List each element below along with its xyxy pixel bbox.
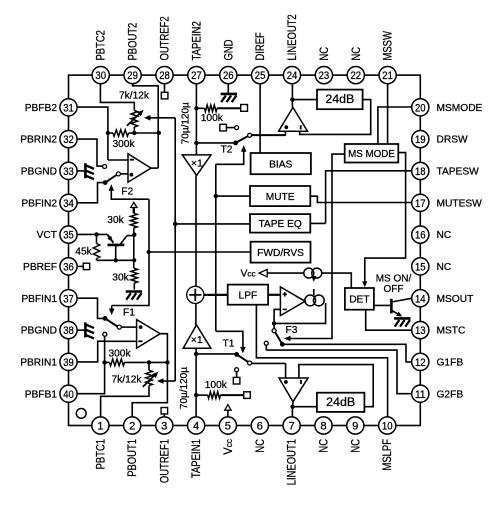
svg-text:MSSW: MSSW <box>381 30 395 60</box>
svg-text:NC: NC <box>317 47 331 61</box>
svg-text:PBRIN1: PBRIN1 <box>20 358 57 369</box>
wire pin20 to MS MODE <box>378 107 412 144</box>
current mirror lower <box>305 295 316 306</box>
block FWD/RVS <box>251 242 311 263</box>
wire LPF to MSLPF pin10 <box>256 305 387 417</box>
wire to 24dB ch1 <box>293 406 317 408</box>
pin 5 <box>219 417 236 434</box>
wire pot bottom to 300k node <box>133 127 135 133</box>
wire pot to pin1 <box>101 386 149 418</box>
svg-text:TAPE EQ: TAPE EQ <box>258 219 301 230</box>
bus MS MODE right to DET <box>365 153 406 282</box>
wire amp output to pin7 <box>291 402 294 417</box>
wire pin37 to F1 pivot <box>77 298 105 318</box>
block MUTE <box>250 186 310 206</box>
svg-text:29: 29 <box>127 70 138 82</box>
wire F2 minus input <box>108 133 128 160</box>
svg-text:MSMODE: MSMODE <box>437 103 483 114</box>
svg-text:22: 22 <box>351 70 362 82</box>
svg-text:NC: NC <box>253 439 267 453</box>
pin 2 <box>124 417 141 434</box>
op-amp F1 <box>137 320 161 349</box>
svg-text:70µ/120µ: 70µ/120µ <box>179 367 190 409</box>
svg-text:TAPEIN1: TAPEIN1 <box>189 439 203 478</box>
wire pin3 stub <box>163 414 165 417</box>
switch T1 lever <box>234 352 239 357</box>
pin 37 <box>60 290 77 307</box>
svg-text:30: 30 <box>95 70 106 82</box>
pin 13 <box>412 322 429 339</box>
svg-text:21: 21 <box>382 70 393 82</box>
block TAPE EQ <box>250 214 310 233</box>
variable resistor 7k/12k (ch1) body <box>148 362 150 370</box>
svg-text:MUTE: MUTE <box>266 192 295 203</box>
pin 26 <box>220 67 237 84</box>
wire F1 plus input <box>121 326 136 328</box>
svg-text:MSTC: MSTC <box>437 326 466 337</box>
pin 1 <box>92 417 109 434</box>
svg-text:Vcc: Vcc <box>240 269 255 280</box>
svg-text:PBOUT1: PBOUT1 <box>125 439 139 477</box>
wire DET to pin13 <box>366 310 412 331</box>
svg-text:OUTREF2: OUTREF2 <box>158 16 172 60</box>
svg-text:OUTREF1: OUTREF1 <box>157 439 171 483</box>
wire MUTESW to MUTE <box>310 196 411 202</box>
svg-text:7: 7 <box>288 421 294 433</box>
resistor 300k (ch1) <box>110 359 125 366</box>
wire T2 contact to lineout amp <box>252 134 286 136</box>
wire F3 pivot to pin12 <box>282 344 411 362</box>
op-amp LINEOUT2 <box>279 107 308 131</box>
pin 18 <box>412 162 429 179</box>
wire 24dB ch2 feedback <box>300 100 371 135</box>
svg-text:37: 37 <box>63 293 74 305</box>
block MS MODE <box>345 144 399 163</box>
pin 39 <box>60 353 77 370</box>
svg-text:×1: ×1 <box>191 334 203 346</box>
svg-text:PBTC1: PBTC1 <box>93 439 107 469</box>
svg-text:NC: NC <box>437 230 452 241</box>
svg-text:BIAS: BIAS <box>269 159 292 170</box>
block LPF <box>228 285 268 305</box>
svg-text:5: 5 <box>225 421 231 433</box>
pin 9 <box>347 417 364 434</box>
pin 21 <box>379 67 396 84</box>
svg-text:NC: NC <box>317 439 331 453</box>
wire F3 minus feedback <box>274 309 280 323</box>
wire feedback from mirror <box>274 303 326 323</box>
svg-text:19: 19 <box>415 134 426 146</box>
svg-text:40: 40 <box>63 389 74 401</box>
svg-text:G1FB: G1FB <box>437 358 464 369</box>
svg-text:PBFIN1: PBFIN1 <box>21 294 57 305</box>
terminal square 100k ch1 <box>244 392 251 399</box>
wire mirror to DET <box>322 273 352 288</box>
transistor Q1 (VCT buffer) <box>107 234 113 242</box>
svg-text:7k/12k: 7k/12k <box>119 91 150 102</box>
svg-text:11: 11 <box>415 389 426 401</box>
wire TAPESW to TAPE EQ <box>310 171 411 224</box>
svg-text:NC: NC <box>348 439 362 453</box>
ground below 30k <box>126 290 142 293</box>
svg-text:×1: ×1 <box>191 157 203 169</box>
wire F2 plus input <box>120 173 128 175</box>
wire pin36 stub <box>77 265 83 267</box>
wire TAPE EQ block input <box>175 223 250 225</box>
resistor 30k lower <box>131 268 138 283</box>
pin 14 <box>412 290 429 307</box>
terminal square T1 contact <box>233 377 240 384</box>
svg-text:F3: F3 <box>286 325 298 336</box>
svg-text:9: 9 <box>352 421 358 433</box>
op-amp x1 (ch2 tape) <box>182 155 211 176</box>
svg-text:8: 8 <box>320 421 326 433</box>
Vcc arrow at pin5 <box>227 410 229 417</box>
pin 10 <box>379 417 396 434</box>
svg-text:13: 13 <box>415 325 426 337</box>
svg-text:OFF: OFF <box>384 284 404 295</box>
wire pin27 rail <box>195 84 197 155</box>
pin 33 <box>60 162 77 179</box>
svg-text:6: 6 <box>257 421 263 433</box>
svg-text:33: 33 <box>63 166 74 178</box>
svg-text:PBTC2: PBTC2 <box>94 30 108 60</box>
svg-text:DIREF: DIREF <box>253 32 267 60</box>
pin 38 <box>60 322 77 339</box>
svg-text:39: 39 <box>63 357 74 369</box>
resistor 45k <box>96 234 98 243</box>
svg-text:27: 27 <box>191 70 202 82</box>
terminal square at pin3 <box>161 408 168 415</box>
wire x1 ch1 output to summing node <box>195 304 197 326</box>
current mirror upper (Vcc) <box>304 268 314 278</box>
svg-text:MS MODE: MS MODE <box>348 149 395 160</box>
svg-text:T2: T2 <box>221 145 233 156</box>
svg-text:TAPEIN2: TAPEIN2 <box>189 21 203 60</box>
svg-text:PBOUT2: PBOUT2 <box>126 23 140 61</box>
wiper wire to bus <box>148 117 176 119</box>
svg-text:300k: 300k <box>108 348 131 359</box>
wire to 24dB ch2 <box>292 99 317 101</box>
ground at pin33 <box>77 170 84 172</box>
op-amp x1 (ch1 tape) <box>183 325 211 348</box>
wire 300k row ch1 <box>105 361 168 363</box>
hollow arrow above 30k <box>131 202 137 207</box>
wire summing node to LPF <box>204 294 228 296</box>
svg-text:35: 35 <box>63 230 74 242</box>
wire pin40 to 300k node <box>77 362 105 393</box>
pin 28 <box>156 67 173 84</box>
svg-text:PBGND: PBGND <box>21 326 57 337</box>
pin 23 <box>315 67 332 84</box>
pin 8 <box>315 417 332 434</box>
wire pin25 to BIAS <box>259 84 261 153</box>
ground at pin38 <box>77 329 84 331</box>
svg-text:F2: F2 <box>121 186 133 197</box>
svg-text:32: 32 <box>63 134 74 146</box>
wire T1 upper contact <box>235 368 239 372</box>
svg-text:T1: T1 <box>223 338 235 349</box>
pin 12 <box>412 353 429 370</box>
svg-text:16: 16 <box>415 230 426 242</box>
pin 16 <box>412 226 429 243</box>
svg-text:Vcc: Vcc <box>221 439 235 455</box>
pin 24 <box>283 67 300 84</box>
svg-text:LINEOUT1: LINEOUT1 <box>285 439 299 485</box>
bus MS MODE left control <box>290 154 344 338</box>
svg-text:GND: GND <box>221 40 235 61</box>
svg-text:MSOUT: MSOUT <box>437 294 474 305</box>
resistor 30k upper <box>131 213 138 228</box>
pin 35 <box>60 226 77 243</box>
summing node <box>187 286 204 303</box>
svg-text:24dB: 24dB <box>325 92 354 106</box>
node dots 300k row ch2 <box>106 131 110 135</box>
svg-text:F1: F1 <box>123 308 135 319</box>
pin 4 <box>188 417 205 434</box>
wire pin24 to amp output node <box>291 84 293 108</box>
pin 36 <box>60 258 77 275</box>
svg-text:PBREF: PBREF <box>23 262 57 273</box>
switch F3 second contact <box>264 341 268 345</box>
wiper wire ch1 <box>161 380 176 382</box>
resistor 100k (ch1) <box>196 394 208 396</box>
Vcc source arrow <box>259 269 267 276</box>
svg-text:PBFIN2: PBFIN2 <box>21 198 57 209</box>
ground at pin26 <box>227 84 229 93</box>
pin 6 <box>251 417 268 434</box>
svg-text:36: 36 <box>63 262 74 274</box>
pin 34 <box>60 194 77 211</box>
wire F2 output to rail <box>151 167 158 169</box>
svg-text:34: 34 <box>63 198 74 210</box>
variable resistor 7k/12k (ch2) body <box>131 110 138 127</box>
svg-text:PBGND: PBGND <box>21 167 57 178</box>
wire T1 contact to lineout amp <box>252 362 286 364</box>
svg-text:MSLPF: MSLPF <box>380 439 394 471</box>
wire MUTE block input <box>216 195 250 197</box>
wire pin28 stub <box>164 84 166 93</box>
svg-text:26: 26 <box>223 70 234 82</box>
svg-text:31: 31 <box>63 102 74 114</box>
pin 31 <box>60 99 77 116</box>
pin 40 <box>60 385 77 402</box>
svg-text:LINEOUT2: LINEOUT2 <box>285 14 299 60</box>
svg-text:30k: 30k <box>112 272 129 283</box>
terminal square at pin28 <box>161 92 168 99</box>
switch T2 drive arrow <box>241 145 247 152</box>
wire x1 ch2 output to summing node <box>195 175 197 286</box>
switch F2 lever <box>105 175 117 183</box>
switch T2 lever <box>233 141 238 146</box>
terminal square at pin36 <box>83 263 89 269</box>
block 24dB ch2 <box>317 90 363 110</box>
IC package outline <box>69 75 421 425</box>
wire 300k row <box>108 132 159 134</box>
wire LINEOUT2 plus input <box>252 131 286 135</box>
svg-text:10: 10 <box>382 421 393 433</box>
svg-text:LPF: LPF <box>239 290 258 301</box>
pin 32 <box>60 131 77 148</box>
svg-text:100k: 100k <box>205 380 228 391</box>
bus FWD/RVS control vertical <box>112 199 149 305</box>
wire pin32 to switch F2 contact <box>77 139 103 166</box>
svg-text:DRSW: DRSW <box>437 135 469 146</box>
svg-text:PBFB1: PBFB1 <box>25 389 58 400</box>
bus mute control vertical <box>215 164 217 331</box>
mirror coupling arrow <box>313 289 315 295</box>
svg-text:25: 25 <box>255 70 266 82</box>
svg-text:VCT: VCT <box>37 230 57 241</box>
svg-text:FWD/RVS: FWD/RVS <box>257 248 304 259</box>
svg-text:23: 23 <box>319 70 330 82</box>
op-amp LINEOUT1 <box>279 378 308 402</box>
op-amp F3 <box>280 287 305 316</box>
svg-text:17: 17 <box>415 198 426 210</box>
wire F2 pivot to pin34 <box>77 183 105 203</box>
switch F1 drive arrow <box>109 309 115 316</box>
svg-text:4: 4 <box>193 421 199 433</box>
svg-text:TAPESW: TAPESW <box>437 167 480 178</box>
switch T1 drive arrow <box>216 331 243 347</box>
switch F1 lever <box>103 316 108 321</box>
pin 17 <box>412 194 429 211</box>
wire T2 upper contact <box>226 127 234 129</box>
svg-text:24dB: 24dB <box>326 395 355 409</box>
wire 30k lower to ground <box>133 283 135 290</box>
wire T1 pivot row <box>196 353 237 355</box>
svg-text:24: 24 <box>287 70 298 82</box>
7k/12k (ch1) pot arrow <box>143 374 157 387</box>
wire LINEOUT1 minus feedback <box>299 365 373 407</box>
block DET <box>345 288 374 310</box>
svg-text:14: 14 <box>415 293 426 305</box>
wire pin21 to MS MODE <box>387 84 389 144</box>
pin 1 orientation mark <box>76 409 86 419</box>
pin 22 <box>347 67 364 84</box>
svg-text:7k/12k: 7k/12k <box>111 375 142 386</box>
wire LINEOUT1 plus stub <box>285 363 287 378</box>
wire pin31 to 300k node <box>77 107 108 133</box>
svg-text:12: 12 <box>415 357 426 369</box>
svg-text:MUTESW: MUTESW <box>437 198 483 209</box>
svg-text:70µ/120µ: 70µ/120µ <box>181 102 192 144</box>
op-amp F2 <box>128 154 151 183</box>
terminal square T2 contact <box>220 124 227 131</box>
resistor 300k (ch2) <box>113 130 129 137</box>
pin 11 <box>412 385 429 402</box>
svg-text:G2FB: G2FB <box>437 389 464 400</box>
svg-text:18: 18 <box>415 166 426 178</box>
wire F1 output rail <box>132 334 167 417</box>
wire T2 pivot row <box>196 142 235 144</box>
wire 30k chain <box>133 228 135 268</box>
bus wiper/TAPE EQ vertical <box>174 118 176 381</box>
svg-text:30k: 30k <box>107 215 124 226</box>
pin 30 <box>92 67 109 84</box>
svg-text:28: 28 <box>159 70 170 82</box>
svg-text:20: 20 <box>415 102 426 114</box>
7k/12k (ch2) pot arrow <box>127 112 141 126</box>
wire DET to Q2 base <box>374 304 390 306</box>
wire pin29 jog to F2 output rail <box>133 84 159 169</box>
pin 3 <box>156 417 173 434</box>
wire pin4 rail <box>195 348 197 417</box>
resistor 100k (ch2) <box>196 107 204 109</box>
wire F3 contact to pin11 <box>266 350 411 394</box>
pin 20 <box>412 99 429 116</box>
svg-text:1: 1 <box>97 421 103 433</box>
wire FWD/RVS block input <box>149 251 251 253</box>
wire pin39 to switch F1 contact <box>77 336 105 362</box>
pin 19 <box>412 131 429 148</box>
ground at Q2 emitter <box>394 317 410 320</box>
svg-text:3: 3 <box>161 421 167 433</box>
wire base row <box>97 259 135 261</box>
svg-text:15: 15 <box>415 262 426 274</box>
block BIAS <box>251 153 311 174</box>
svg-text:100k: 100k <box>201 113 224 124</box>
block 24dB ch1 <box>317 393 365 412</box>
pin 29 <box>124 67 141 84</box>
svg-text:DET: DET <box>349 295 369 306</box>
transistor Q2 (MS out) <box>390 299 393 314</box>
terminal square 100k ch2 <box>241 105 248 112</box>
svg-text:38: 38 <box>63 325 74 337</box>
wire pin35 node <box>77 233 107 235</box>
switch F2 drive arrow <box>109 184 115 191</box>
switch F3 <box>273 323 275 328</box>
wire LPF to F3 <box>268 294 280 296</box>
pin 7 <box>283 417 300 434</box>
svg-text:NC: NC <box>437 262 452 273</box>
svg-text:NC: NC <box>349 47 363 61</box>
wire F1 minus input <box>105 341 137 362</box>
svg-text:300k: 300k <box>112 139 135 150</box>
svg-text:2: 2 <box>129 421 135 433</box>
svg-text:45k: 45k <box>75 247 92 258</box>
pin 27 <box>188 67 205 84</box>
svg-text:PBFB2: PBFB2 <box>25 103 58 114</box>
wire pin30 to 7k/12k pot top <box>100 84 134 111</box>
pin 15 <box>412 258 429 275</box>
svg-text:PBRIN2: PBRIN2 <box>20 135 57 146</box>
pin 25 <box>252 67 269 84</box>
